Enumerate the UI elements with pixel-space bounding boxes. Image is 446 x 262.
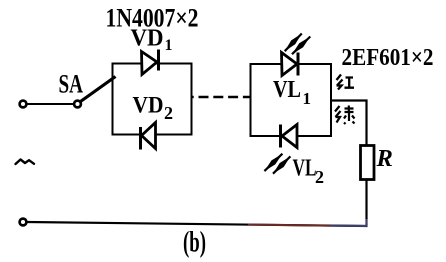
- svg-text:VL: VL: [293, 156, 317, 182]
- LED VL1: [282, 34, 311, 76]
- svg-text:1: 1: [165, 37, 173, 54]
- bottom wire: [27, 222, 368, 226]
- resistor R body: [361, 146, 375, 180]
- svg-text:2EF601×2: 2EF601×2: [342, 44, 434, 71]
- switch SA pivot terminal: [74, 101, 81, 108]
- LED box: [251, 64, 332, 136]
- svg-text:2: 2: [315, 167, 324, 187]
- svg-text:(b): (b): [183, 227, 206, 259]
- diode VD2: [141, 123, 156, 150]
- light arrows: [264, 154, 282, 171]
- svg-text:R: R: [376, 145, 393, 172]
- terminal (AC input bottom): [20, 219, 27, 226]
- svg-text:2: 2: [164, 103, 173, 123]
- AC source symbol ~: [16, 160, 35, 165]
- label red (hong): [337, 75, 355, 90]
- wire (scan colour tint): [248, 225, 330, 226]
- terminal (AC input top): [20, 101, 27, 108]
- light arrows: [285, 34, 302, 52]
- wire: [27, 103, 73, 105]
- dashed wire between boxes: [192, 96, 251, 99]
- wire LED box to resistor branch: [331, 101, 367, 146]
- svg-text:VD: VD: [133, 93, 164, 119]
- wire resistor to bottom: [365, 180, 367, 227]
- svg-text:VL: VL: [273, 77, 301, 103]
- label green (lv): [335, 106, 355, 125]
- switch SA blade: [81, 77, 116, 102]
- diode VD1: [142, 50, 159, 75]
- svg-text:SA: SA: [59, 70, 84, 99]
- svg-text:1: 1: [303, 89, 312, 108]
- svg-text:1N4007×2: 1N4007×2: [106, 3, 199, 32]
- diode bridge box: [113, 64, 192, 135]
- LED VL2: [264, 125, 297, 174]
